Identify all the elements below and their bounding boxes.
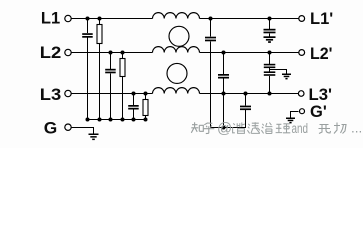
junction dot L3-C3 bbox=[132, 92, 136, 96]
svg-text:G': G' bbox=[310, 103, 327, 121]
ground symbol G bbox=[89, 134, 99, 136]
choke winding L3 bbox=[153, 88, 200, 94]
svg-text:@: @ bbox=[217, 120, 232, 137]
junction dot L1-C1 bbox=[86, 17, 90, 21]
junction dot bus-R2 bbox=[121, 118, 125, 122]
svg-text:L1: L1 bbox=[41, 10, 60, 28]
wire G' to ground bbox=[291, 112, 299, 118]
wire midpoint tap bbox=[270, 70, 287, 74]
terminal L1 bbox=[65, 15, 71, 21]
terminal L1' bbox=[299, 16, 305, 22]
junction dot L2-C2 bbox=[109, 51, 113, 55]
terminal L2 bbox=[65, 49, 71, 55]
capacitor C6 leads (L3 to output bus) bbox=[245, 94, 247, 128]
watermark char 谐 bbox=[233, 123, 245, 134]
junction dot bus-C2 bbox=[109, 118, 113, 122]
watermark char 波 bbox=[247, 122, 260, 133]
choke core circle 1 bbox=[169, 26, 189, 46]
watermark char 治 bbox=[261, 123, 272, 134]
junction dot bus-C1 bbox=[86, 118, 90, 122]
watermark char 无 bbox=[319, 125, 331, 134]
junction dot output bus bbox=[222, 126, 226, 130]
svg-text:and: and bbox=[292, 121, 309, 136]
junction dot bus-C3 bbox=[132, 118, 136, 122]
terminal G bbox=[65, 124, 71, 130]
ground symbol G' bbox=[286, 118, 295, 120]
wire L2 output bbox=[200, 52, 299, 54]
svg-text:G: G bbox=[44, 120, 58, 138]
junction dot bus-R1 bbox=[98, 118, 102, 122]
watermark char 知 bbox=[191, 122, 203, 133]
choke winding L1 bbox=[153, 13, 200, 19]
resistor R3 leads bbox=[145, 94, 147, 120]
wire L3 input bbox=[71, 93, 152, 95]
terminal L2' bbox=[299, 50, 305, 56]
junction dot L3-C6 bbox=[244, 92, 248, 96]
wire G to ground bbox=[71, 128, 93, 134]
capacitor C2 plates bbox=[105, 69, 116, 71]
junction dot L3-R3 bbox=[144, 92, 148, 96]
wire L1 output bbox=[200, 18, 299, 20]
resistor R1 leads bbox=[99, 19, 101, 120]
junction dot C5-L3 bbox=[222, 92, 226, 96]
capacitor C9 plates bbox=[264, 71, 276, 73]
capacitor C3 plates bbox=[128, 105, 139, 107]
capacitor C8 lead (L2 to midpoint) bbox=[269, 53, 271, 72]
junction dot L2-C5 bbox=[222, 51, 226, 55]
resistor R2 body bbox=[120, 59, 125, 77]
svg-text:...: ... bbox=[351, 121, 362, 136]
junction dot L2-R2 bbox=[121, 51, 125, 55]
terminal G' bbox=[300, 109, 305, 114]
junction dot L1-R1 bbox=[98, 17, 102, 21]
capacitor C4 plates bbox=[205, 37, 216, 39]
capacitor C8 plates bbox=[264, 64, 276, 66]
output-side star bus bbox=[211, 127, 247, 129]
junction dot bus-R3 bbox=[144, 118, 148, 122]
junction dot L2-C8 bbox=[268, 51, 272, 55]
star-point bus (input side) bbox=[86, 119, 147, 121]
capacitor C2 leads (L2 to star bus) bbox=[110, 53, 112, 120]
ground symbol midpoint bbox=[282, 74, 291, 76]
capacitor C5 leads (L2 to L3) bbox=[223, 53, 225, 94]
svg-text:L2': L2' bbox=[310, 45, 333, 63]
terminal L3 bbox=[65, 90, 71, 96]
wire L3 to output bus bbox=[223, 94, 225, 128]
capacitor C3 leads (L3 to star bus) bbox=[133, 94, 135, 120]
ground symbol C7 bbox=[264, 36, 276, 38]
choke winding L2 bbox=[153, 47, 200, 53]
capacitor C9 lead (midpoint to L3) bbox=[269, 76, 271, 94]
resistor R1 body bbox=[97, 25, 102, 44]
terminal L3' bbox=[298, 91, 304, 97]
watermark char 理 bbox=[276, 124, 291, 133]
choke core circle 2 bbox=[167, 63, 187, 83]
capacitor C7 plates bbox=[264, 29, 276, 31]
watermark char 功 bbox=[334, 123, 346, 134]
junction dot L1-C7 bbox=[268, 17, 272, 21]
wire L2 input bbox=[71, 52, 152, 54]
wire L3 output bbox=[200, 93, 299, 95]
capacitor C7 leads (L1 to ground) bbox=[269, 19, 271, 37]
capacitor C5 plates bbox=[218, 74, 229, 76]
wire L1 input bbox=[71, 18, 152, 20]
capacitor C4 leads (L1 to output bus) bbox=[210, 19, 212, 128]
junction dot C9-L3 bbox=[268, 92, 272, 96]
resistor R3 body bbox=[143, 100, 148, 116]
watermark char 乎 bbox=[204, 123, 215, 134]
capacitor C1 plates bbox=[82, 33, 93, 35]
svg-text:L3: L3 bbox=[40, 86, 62, 104]
junction dot L1-C4 bbox=[209, 17, 213, 21]
svg-text:L3': L3' bbox=[309, 86, 333, 104]
svg-text:L1': L1' bbox=[310, 10, 333, 28]
capacitor C6 plates bbox=[240, 106, 251, 108]
svg-text:L2: L2 bbox=[40, 44, 62, 62]
resistor R2 leads bbox=[122, 53, 124, 120]
capacitor C1 leads (L1 to star bus) bbox=[87, 19, 89, 120]
